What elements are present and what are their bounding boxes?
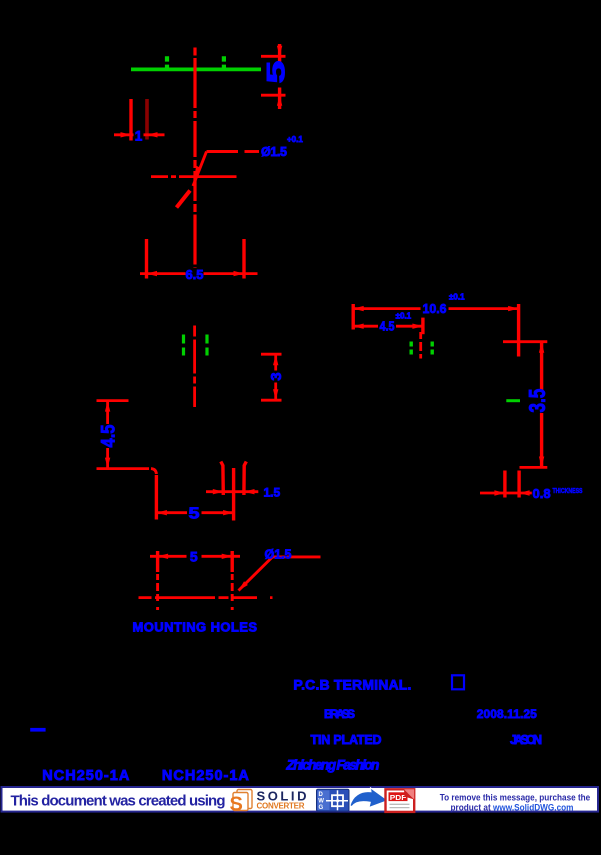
svg-text:2008.11.25: 2008.11.25 bbox=[477, 707, 537, 721]
dimension 1 : dim line right part bbox=[144, 133, 165, 136]
dimension 4.5 left : dim line bottom seg bbox=[106, 448, 109, 468]
mounting dim 5 : arrow left-pointing bbox=[158, 554, 169, 559]
dimension 6.5 : left extension line bbox=[145, 239, 148, 279]
svg-text:CONVERTER: CONVERTER bbox=[257, 802, 305, 811]
centerline view3 bbox=[419, 332, 422, 359]
dimension 3.5 right : arrow up-pointing bbox=[539, 342, 544, 353]
mounting hole leader horizontal bbox=[273, 555, 321, 558]
dimension 0.8 : extension line 2 bbox=[517, 471, 520, 498]
svg-text:6.5: 6.5 bbox=[185, 267, 203, 282]
dimension 1 : dim line left part bbox=[114, 133, 134, 136]
mounting hole centerline right dashed bbox=[231, 574, 234, 613]
dimension 10.6 : arrow left-pointing bbox=[353, 306, 364, 311]
svg-text:Ø1.5: Ø1.5 bbox=[261, 145, 287, 159]
svg-text:Zhicheng Fashion: Zhicheng Fashion bbox=[285, 757, 379, 773]
dimension 5 vertical right : top extension line bbox=[261, 55, 286, 58]
logo: DWG icon bbox=[317, 789, 350, 811]
dimension 4.5 left : arrow up-pointing bbox=[105, 401, 110, 412]
svg-text:5: 5 bbox=[190, 549, 198, 565]
dimension 4.5 left : arrow down-pointing bbox=[105, 458, 110, 469]
svg-text:G: G bbox=[319, 805, 324, 811]
svg-text:±0.1: ±0.1 bbox=[396, 312, 412, 321]
title: small revision mark bbox=[30, 728, 45, 732]
svg-text:1.5: 1.5 bbox=[264, 486, 281, 500]
banner background bbox=[2, 787, 599, 812]
dimension 5 vertical right : arrow down-pointing bbox=[277, 46, 282, 57]
pin outline right bbox=[244, 462, 246, 496]
mounting dim 5 : arrow right-pointing bbox=[222, 554, 233, 559]
dimension 4.5b : dim line right seg bbox=[396, 325, 424, 328]
mounting dim 5 : left extension line solid bbox=[156, 551, 159, 572]
dimension 3.5 right : arrow down-pointing bbox=[539, 457, 544, 468]
dimension 4.5b : right end bar bbox=[421, 318, 424, 335]
vertical centerline view2 bbox=[193, 326, 196, 408]
hole slash stroke bbox=[177, 191, 191, 208]
green pin tick left bbox=[165, 56, 169, 68]
dimension 5 vertical right : dim line top seg bbox=[278, 44, 281, 64]
svg-text:±0.1: ±0.1 bbox=[449, 293, 465, 302]
svg-text:W: W bbox=[318, 799, 324, 805]
green board edge line bbox=[131, 68, 261, 72]
dimension 10.6 : arrow right-pointing bbox=[508, 306, 518, 311]
green mark side view bbox=[506, 399, 520, 402]
dimension 3.5 right : top extension line bbox=[503, 340, 547, 343]
logo: PDF icon bbox=[386, 789, 415, 812]
dimension 4.5b : dim line left seg bbox=[354, 325, 378, 328]
dimension 1.5 : arrow left-pointing bbox=[244, 489, 255, 494]
logo: swoosh arrow bbox=[350, 788, 388, 808]
dimension 10.6 : right extension line bbox=[517, 304, 520, 357]
dimension 6.5 : arrow left-pointing bbox=[147, 271, 158, 276]
dimension 4.5 left : top extension line bbox=[97, 399, 129, 402]
green pin centerline right bbox=[205, 335, 208, 357]
dimension 1 : arrow left-pointing bbox=[147, 132, 158, 137]
dimension 10.6 : left extension line bbox=[352, 304, 355, 330]
mounting holes horizontal centerline bbox=[139, 596, 273, 599]
dimension 3 : top extension line bbox=[261, 353, 282, 356]
svg-text:0.8: 0.8 bbox=[533, 486, 551, 501]
dimension 6.5 : arrow right-pointing bbox=[234, 271, 245, 276]
leader arrowhead bbox=[195, 166, 202, 177]
svg-text:product at www.SolidDWG.com: product at www.SolidDWG.com bbox=[451, 801, 574, 812]
mounting hole centerline left dashed bbox=[156, 574, 159, 613]
dimension 5 vertical right : dim line bottom seg bbox=[278, 88, 281, 110]
dimension 0.8 : dim line bbox=[480, 492, 532, 495]
green pin centerline right view3 bbox=[431, 342, 434, 355]
dimension 6.5 : dim line left seg bbox=[140, 272, 186, 275]
dimension 0.8 : extension line 1 bbox=[503, 471, 506, 498]
leader diagonal to hole bbox=[193, 152, 207, 187]
dimension 5 bottom : left extension line bbox=[155, 475, 158, 520]
svg-text:D: D bbox=[319, 792, 324, 798]
mounting hole leader diagonal bbox=[239, 557, 273, 591]
dimension 6.5 : right extension line bbox=[242, 239, 245, 279]
dimension 3 : bottom extension line bbox=[261, 399, 282, 402]
svg-text:This document was created usin: This document was created using bbox=[11, 793, 226, 810]
dimension 3 : dim line bottom seg bbox=[274, 383, 277, 401]
dimension 10.6 : dim line left seg bbox=[354, 307, 421, 310]
dimension 3 : arrow up-pointing bbox=[273, 355, 278, 366]
svg-text:MOUNTING HOLES: MOUNTING HOLES bbox=[133, 620, 258, 635]
svg-text:P.C.B TERMINAL.: P.C.B TERMINAL. bbox=[293, 676, 411, 692]
dimension 6.5 : dim line right seg bbox=[204, 272, 258, 275]
svg-text:5: 5 bbox=[263, 60, 291, 83]
dimension 3.5 right : dim line top seg bbox=[540, 342, 543, 390]
svg-text:THICKNESS: THICKNESS bbox=[553, 488, 583, 495]
svg-text:3.5: 3.5 bbox=[524, 388, 550, 412]
svg-text:NCH250-1A: NCH250-1A bbox=[42, 768, 130, 784]
dimension 4.5 left : bottom extension line bbox=[97, 467, 150, 470]
svg-text:3: 3 bbox=[268, 372, 285, 380]
dimension 1 : arrow right-pointing bbox=[121, 132, 132, 137]
dimension 3 : dim line top seg bbox=[274, 354, 277, 371]
svg-text:BRASS: BRASS bbox=[324, 707, 355, 721]
green pin tick right bbox=[222, 56, 226, 68]
leader horizontal seg a bbox=[207, 150, 239, 153]
svg-text:4.5: 4.5 bbox=[380, 318, 395, 333]
mounting dim 5 : dim line right seg bbox=[202, 555, 241, 558]
dimension 5 bottom : dim line left seg bbox=[156, 511, 187, 514]
svg-text:4.5: 4.5 bbox=[98, 424, 119, 447]
svg-text:+0.1: +0.1 bbox=[287, 135, 303, 144]
green pin centerline left bbox=[182, 335, 185, 357]
leader horizontal seg b bbox=[245, 150, 260, 153]
mounting dim 5 : right extension line solid bbox=[230, 551, 233, 572]
vertical centerline view1 bbox=[193, 48, 196, 269]
dimension 0.8 : arrow left-pointing bbox=[519, 490, 530, 495]
dimension 4.5b : arrow left-pointing bbox=[353, 324, 364, 329]
dimension 1.5 : dim line bbox=[206, 490, 258, 493]
dimension 1 : extension line dark red bbox=[145, 99, 149, 140]
mounting hole leader arrowhead bbox=[239, 581, 248, 590]
mounting dim 5 : dim line left seg bbox=[150, 555, 187, 558]
dimension 1.5 : arrow right-pointing bbox=[213, 489, 224, 494]
dimension 0.8 : arrow right-pointing bbox=[494, 490, 505, 495]
dimension 3 : arrow down-pointing bbox=[273, 389, 278, 400]
dimension 4.5 left : dim line top seg bbox=[106, 401, 109, 424]
dimension 5 bottom : arrow right-pointing bbox=[223, 510, 234, 515]
svg-text:Ø1.5: Ø1.5 bbox=[265, 548, 292, 562]
hole horizontal centerline bbox=[151, 175, 237, 178]
dimension 5 bottom : dim line right seg bbox=[202, 511, 234, 514]
svg-text:1: 1 bbox=[135, 128, 143, 143]
pin outline left bbox=[221, 462, 224, 496]
dimension 3.5 right : bottom extension line bbox=[520, 466, 548, 469]
title: tofu box glyph bbox=[452, 675, 464, 689]
svg-text:10.6: 10.6 bbox=[423, 301, 447, 316]
svg-text:S: S bbox=[230, 794, 243, 816]
green pin centerline left view3 bbox=[410, 342, 413, 355]
dimension 5 bottom : right extension line bbox=[232, 468, 235, 521]
dimension 5 vertical right : bottom extension line bbox=[261, 94, 286, 97]
dimension 1 : extension line red bbox=[129, 99, 132, 141]
dimension 5 bottom : arrow left-pointing bbox=[156, 510, 167, 515]
svg-text:NCH250-1A: NCH250-1A bbox=[162, 768, 250, 784]
svg-text:5: 5 bbox=[189, 506, 200, 523]
logo: stacked pages icon bbox=[230, 790, 253, 816]
dimension 3.5 right : dim line bottom seg bbox=[540, 413, 543, 467]
svg-text:TIN PLATED: TIN PLATED bbox=[311, 733, 382, 747]
dimension 4.5 left : corner curve into ext of 5 bbox=[151, 469, 156, 474]
svg-text:JASON: JASON bbox=[510, 733, 542, 747]
dimension 5 vertical right : arrow up-pointing bbox=[277, 95, 282, 106]
dimension 4.5b : arrow right-pointing bbox=[412, 324, 423, 329]
svg-text:PDF: PDF bbox=[390, 793, 407, 802]
dimension 10.6 : dim line right seg bbox=[449, 307, 519, 310]
